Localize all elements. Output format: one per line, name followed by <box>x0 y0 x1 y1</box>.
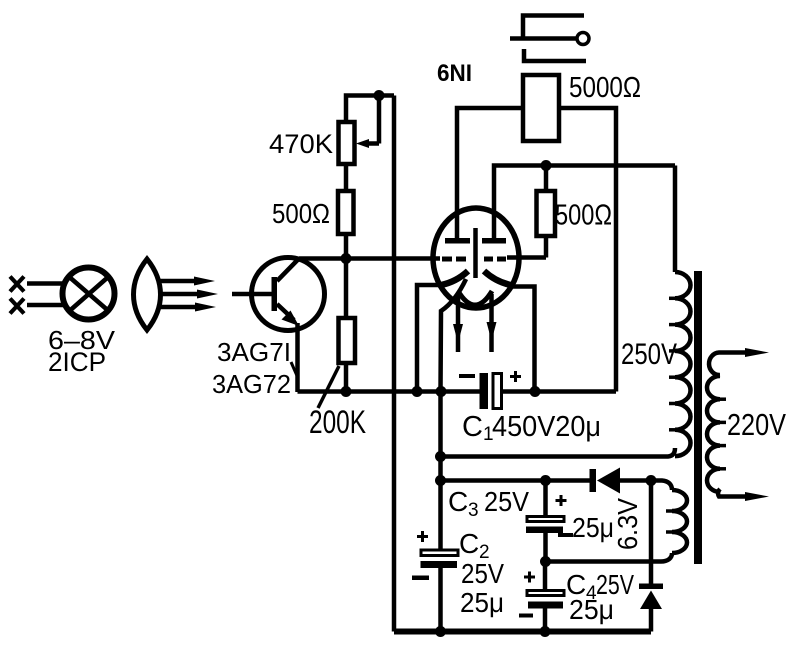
wire top <box>346 96 394 125</box>
tube grid left dashes <box>442 257 466 262</box>
node dot C3 bus tap <box>435 475 446 486</box>
label pointer 200K <box>318 366 339 408</box>
C1 minus <box>459 374 475 378</box>
capacitor C4 <box>527 562 564 632</box>
label C3 25V <box>448 486 529 521</box>
label pointer <box>291 362 298 378</box>
relay contact top bracket <box>523 16 584 39</box>
wire to 6.3V winding top <box>651 481 672 491</box>
tube divider <box>473 228 478 278</box>
svg-text:25μ: 25μ <box>572 512 614 543</box>
node dot C4 bottom <box>540 626 551 637</box>
svg-text:25V: 25V <box>461 558 504 589</box>
svg-text:3AG72: 3AG72 <box>212 369 291 399</box>
node dot cathode-right rail <box>530 386 541 397</box>
winding cusp nubs secondary <box>719 399 726 469</box>
wire grid horizontal <box>299 256 440 261</box>
svg-text:5000Ω: 5000Ω <box>569 72 641 104</box>
wire 500 to 200K <box>344 234 349 318</box>
wire to primary top <box>673 166 678 273</box>
wire long vertical bus <box>392 96 397 632</box>
svg-text:470K: 470K <box>269 129 333 159</box>
svg-text:6NI: 6NI <box>437 60 472 87</box>
label C4 25V <box>566 569 634 625</box>
node dot grid junction <box>341 253 352 264</box>
light arrow 2 <box>159 290 218 299</box>
tube grid right dashes <box>484 257 506 262</box>
wire dc rail y480 <box>441 478 591 483</box>
diode D1 <box>590 468 652 494</box>
svg-text:C: C <box>459 528 479 559</box>
svg-text:3AG7I: 3AG7I <box>217 337 291 367</box>
capacitor C3 <box>526 481 564 562</box>
resistor 500ohm right <box>537 166 556 258</box>
wire lamp bottom lead <box>27 303 66 308</box>
wire 200K bottom <box>344 363 349 392</box>
tube heater arc <box>458 291 492 305</box>
wire emitter down <box>295 323 300 392</box>
svg-text:25μ: 25μ <box>569 594 614 625</box>
C2 plus <box>417 531 428 542</box>
wire grid right <box>507 255 546 260</box>
C4 plus <box>524 572 535 583</box>
node dot 200K rail <box>341 386 352 397</box>
wire cathode bus curve <box>441 279 467 392</box>
lamp lead marks x <box>10 277 24 314</box>
resistor 500ohm left <box>338 191 354 234</box>
node dot C2 bottom <box>435 626 446 637</box>
node dot primary-bottom tap <box>435 451 446 462</box>
svg-text:C: C <box>462 411 483 443</box>
tube plate left <box>445 238 470 244</box>
winding 6.3V <box>672 490 687 553</box>
C1 plus <box>510 371 521 382</box>
potentiometer 470K <box>339 96 380 165</box>
heater lead arrow right <box>487 294 497 352</box>
transformer primary winding 250V <box>675 272 691 456</box>
C3 plus <box>556 495 567 506</box>
lamp LP1 <box>63 268 115 320</box>
tube plate right <box>482 238 506 244</box>
resistor 200K <box>339 318 356 363</box>
wire lamp top lead <box>27 281 66 286</box>
transformer secondary 220V <box>707 376 720 492</box>
node dot C3 top <box>540 475 551 486</box>
label C1 450V20u <box>462 411 601 445</box>
lens <box>134 259 161 330</box>
transistor Q1 phototransistor <box>232 258 325 331</box>
svg-text:25μ: 25μ <box>460 587 504 618</box>
tube cathode left <box>441 271 468 285</box>
light arrow 3 <box>161 303 216 312</box>
svg-text:220V: 220V <box>727 407 786 442</box>
wire secondary top lead <box>709 348 769 375</box>
svg-text:450V20μ: 450V20μ <box>492 411 601 443</box>
C2 minus <box>412 576 429 581</box>
winding cusp nubs primary <box>669 298 676 430</box>
diode D2 <box>639 481 663 632</box>
wire primary bottom <box>441 448 676 457</box>
relay contact bottom bracket <box>524 49 586 61</box>
capacitor C2 <box>421 550 459 632</box>
node dot C3-C4 junction <box>540 556 551 567</box>
wire cathode left <box>417 285 442 392</box>
svg-text:250V: 250V <box>621 338 677 371</box>
relay coil 5000ohm <box>523 75 559 141</box>
winding cusp nubs 6.3V <box>666 511 673 532</box>
svg-text:2ICP: 2ICP <box>48 347 106 377</box>
node dot wiper top <box>374 90 385 101</box>
relay contact armature <box>510 33 589 45</box>
tube V1 6N1 envelope <box>433 208 519 308</box>
wire B+ vertical bus x440 <box>438 392 443 551</box>
tube cathode right <box>484 271 511 285</box>
wire plate left up <box>457 108 523 238</box>
svg-text:500Ω: 500Ω <box>272 198 330 229</box>
wire plate right up <box>494 166 675 239</box>
svg-text:6.3V: 6.3V <box>612 498 643 550</box>
wire 6.3V bottom <box>546 553 673 562</box>
C4 minus <box>519 614 533 618</box>
wire coil right to vertical <box>559 108 616 392</box>
transformer core <box>694 271 702 564</box>
node dot bus rail <box>436 386 447 397</box>
wire 470K to 500 <box>344 164 349 191</box>
node dot cathode-left rail <box>412 386 423 397</box>
node dot D1-D2 junction <box>646 475 657 486</box>
heater lead arrow left <box>453 294 463 352</box>
capacitor C1 <box>480 373 502 409</box>
light arrow 1 <box>159 277 215 286</box>
svg-text:3: 3 <box>468 500 479 521</box>
svg-text:500Ω: 500Ω <box>555 200 612 232</box>
wire secondary bottom lead <box>718 489 769 501</box>
svg-text:25V: 25V <box>484 486 529 517</box>
svg-text:200K: 200K <box>309 404 366 440</box>
node dot anode-2 junction <box>541 160 552 171</box>
label C2 <box>459 528 504 618</box>
svg-text:C: C <box>448 486 468 517</box>
C3 minus <box>558 533 573 537</box>
wire main bottom rail <box>298 389 617 394</box>
wire cathode right <box>509 287 535 392</box>
wire bottom rail <box>394 629 651 635</box>
